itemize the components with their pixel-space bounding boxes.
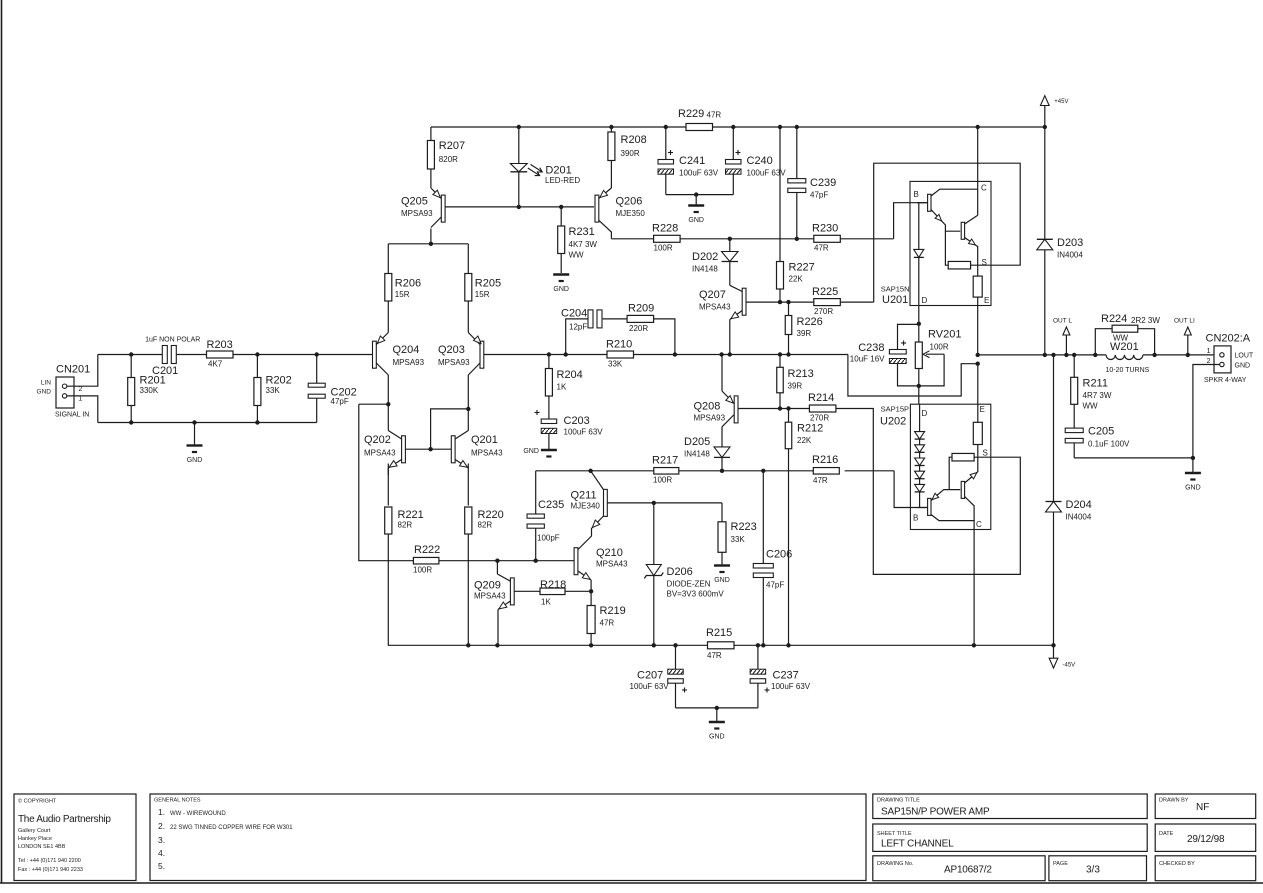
resistor R230 [812,223,840,253]
zener diode D206 [644,565,724,646]
resistor R208 [608,127,647,188]
svg-text:47R: 47R [600,619,615,628]
svg-text:3.: 3. [158,835,165,845]
wire Q205 collector node [388,229,468,274]
svg-text:GND: GND [714,577,730,584]
node OUT LI [1174,318,1195,355]
svg-text:C235: C235 [538,499,564,511]
svg-text:WW: WW [1083,402,1099,411]
capacitor C237 [750,645,811,708]
diode D202 [692,239,738,285]
svg-text:R203: R203 [207,339,233,351]
svg-text:GND: GND [37,389,52,396]
resistor R229 [678,108,721,131]
capacitor C241 [658,127,719,195]
svg-text:The Audio Partnership: The Audio Partnership [18,814,111,825]
resistor R216 [812,454,839,485]
svg-text:GND: GND [553,286,569,293]
svg-text:IN4004: IN4004 [1057,251,1083,260]
svg-text:OUT LI: OUT LI [1174,318,1195,325]
wire C207 C237 ground link [676,706,758,722]
svg-text:NF: NF [1196,802,1209,813]
svg-text:SAP15N/P POWER AMP: SAP15N/P POWER AMP [881,807,990,818]
svg-text:82R: 82R [398,520,413,529]
svg-text:10-20 TURNS: 10-20 TURNS [1106,367,1150,374]
svg-text:R228: R228 [652,223,678,235]
capacitor C235 [527,471,564,561]
svg-text:DATE: DATE [1159,831,1174,837]
svg-text:R217: R217 [652,455,678,467]
svg-text:220R: 220R [629,324,648,333]
svg-text:CHECKED BY: CHECKED BY [1159,861,1195,867]
svg-text:R227: R227 [789,262,815,274]
svg-text:R207: R207 [439,140,465,152]
diode D205 [684,436,730,471]
svg-text:12pF: 12pF [569,323,587,332]
resistor R221 [385,507,424,534]
wire U202 E to output node [977,364,979,405]
capacitor C239 [788,127,836,239]
svg-text:B: B [914,190,919,199]
svg-text:33K: 33K [608,360,623,369]
resistor R211 [1071,355,1112,428]
svg-text:C203: C203 [564,415,590,427]
svg-text:330K: 330K [140,386,159,395]
svg-text:DRAWING No.: DRAWING No. [877,861,914,867]
transistor Q211 [571,471,654,550]
svg-text:MPSA93: MPSA93 [401,209,433,218]
svg-text:100R: 100R [930,343,949,352]
svg-text:R205: R205 [475,278,501,290]
svg-text:R215: R215 [706,627,732,639]
svg-text:GND: GND [1185,485,1201,492]
svg-text:C239: C239 [810,177,836,189]
U202 internal transistor 2 [961,445,978,521]
wire R230 to U201 B [894,203,928,239]
U202 internal resistor RB [949,453,991,489]
ground C203 [523,448,557,457]
resistor R224 [1095,313,1160,355]
ground C241 C240 [688,206,704,225]
ground R223 [714,552,730,584]
svg-text:W201: W201 [1110,341,1139,353]
wire R221 column [359,402,391,645]
transistor Q209 [474,561,540,646]
title block sheet title box [873,824,1147,851]
darlington module U201 [881,181,991,306]
svg-text:LOUT: LOUT [1235,353,1254,360]
svg-text:AP10687/2: AP10687/2 [944,865,992,876]
transistor Q207 [699,285,746,354]
svg-text:R209: R209 [628,303,654,315]
svg-text:MPSA93: MPSA93 [694,414,726,423]
svg-text:33K: 33K [266,386,281,395]
wire input top rail [98,352,372,356]
svg-text:1uF NON POLAR: 1uF NON POLAR [145,337,200,344]
svg-text:LONDON SE1 4BB: LONDON SE1 4BB [18,844,66,850]
svg-text:C238: C238 [858,342,884,354]
U201 internal transistor 1 [917,189,978,231]
transistor Q201 [431,431,504,470]
svg-text:82R: 82R [478,520,493,529]
svg-text:D202: D202 [692,251,718,263]
U202 internal emitter resistor [973,404,982,444]
svg-text:U201: U201 [882,294,908,306]
ground input [187,423,203,465]
wire U201 D to RV201 [917,306,921,343]
svg-text:100R: 100R [413,566,432,575]
svg-text:0.1uF 100V: 0.1uF 100V [1088,440,1130,449]
wire CN201 pin1 to ground rail [67,396,98,423]
wire +45V rail [431,125,1045,129]
svg-text:Q201: Q201 [471,434,498,446]
svg-text:D201: D201 [545,165,571,177]
capacitor C240 [726,127,787,195]
svg-text:SIGNAL IN: SIGNAL IN [55,412,89,419]
svg-text:Fax : +44 (0)171 940 2233: Fax : +44 (0)171 940 2233 [18,867,83,873]
svg-text:GND: GND [688,217,704,224]
U201 internal transistor 2 [961,215,978,265]
U201 internal diode [914,203,924,306]
svg-text:10uF 16V: 10uF 16V [850,355,885,364]
svg-text:GND: GND [709,734,725,741]
diode D204 [1046,353,1092,646]
U201 internal resistor RB [945,231,991,269]
svg-text:R231: R231 [569,226,595,238]
svg-text:GENERAL NOTES: GENERAL NOTES [154,798,201,804]
wire C241 C240 ground link [666,192,734,205]
svg-text:3/3: 3/3 [1086,865,1100,876]
svg-text:D205: D205 [684,436,710,448]
title block drawn by box [1155,794,1256,819]
svg-text:SHEET TITLE: SHEET TITLE [877,831,912,837]
svg-text:47pF: 47pF [810,191,828,200]
svg-text:© COPYRIGHT: © COPYRIGHT [18,798,57,805]
svg-text:15R: 15R [395,290,410,299]
transistor Q202 [364,431,431,476]
wire Q205-Q206 base link [445,205,594,209]
svg-text:1: 1 [79,396,83,403]
wire bottom -45V rail [388,643,1056,647]
svg-text:47R: 47R [814,244,829,253]
svg-text:R219: R219 [600,605,626,617]
trimmer RV201 [915,329,961,405]
transistor Q210 [574,547,628,606]
svg-text:Gallery Court: Gallery Court [18,828,51,834]
capacitor C207 [630,645,688,708]
page border left [1,0,3,883]
wire Q206 collector [599,220,612,239]
svg-text:GND: GND [1235,363,1251,370]
svg-text:OUT L: OUT L [1053,318,1072,325]
svg-text:Q202: Q202 [364,434,391,446]
resistor R218 [540,579,566,607]
svg-text:39R: 39R [797,329,812,338]
wire U202 S loop [836,409,1020,575]
svg-text:R223: R223 [731,521,757,533]
svg-text:SPKR 4-WAY: SPKR 4-WAY [1204,377,1247,384]
svg-text:D206: D206 [667,566,693,578]
svg-text:Hankey Place: Hankey Place [18,836,52,842]
svg-text:Q211: Q211 [571,490,597,502]
resistor R201 [128,355,166,423]
svg-text:1K: 1K [557,383,567,392]
capacitor C201 [145,337,200,378]
title block drawing number box [873,856,1045,881]
title block checked by box [1155,856,1256,881]
svg-text:DRAWN BY: DRAWN BY [1159,798,1189,804]
svg-text:SAP15P: SAP15P [881,405,909,414]
svg-text:PAGE: PAGE [1053,861,1068,867]
svg-text:R218: R218 [540,579,566,591]
svg-text:C205: C205 [1088,426,1114,438]
connector CN201 [37,364,91,419]
svg-text:BV=3V3 600mV: BV=3V3 600mV [667,590,725,599]
resistor R223 [718,521,757,552]
svg-text:R204: R204 [557,369,583,381]
svg-text:R221: R221 [398,509,424,521]
inductor W201 [1106,341,1150,374]
svg-text:R222: R222 [414,544,440,556]
svg-text:4K7: 4K7 [208,360,223,369]
transistor Q205 [401,188,445,228]
svg-text:Tel : +44 (0)171 940 2200: Tel : +44 (0)171 940 2200 [18,858,81,864]
wire R228 row [611,237,893,241]
svg-text:100uF 63V: 100uF 63V [679,169,719,178]
svg-text:C: C [981,184,987,193]
connector CN202:A [1204,333,1254,385]
svg-text:15R: 15R [475,290,490,299]
svg-text:LEFT CHANNEL: LEFT CHANNEL [881,839,954,850]
resistor R231 [558,207,598,273]
wire C205 to ground node [1074,456,1195,460]
svg-text:LIN: LIN [41,380,51,387]
svg-text:39R: 39R [788,382,803,391]
power -45V [1049,645,1075,668]
svg-text:390R: 390R [621,149,640,158]
svg-text:Q206: Q206 [616,196,643,208]
capacitor C206 [753,471,792,646]
svg-text:MPSA93: MPSA93 [438,358,470,367]
svg-text:C241: C241 [679,155,705,167]
resistor R214 [808,392,836,423]
wire U202 C to bottom rail [973,530,975,646]
wire R209 to mid rail [654,319,675,355]
svg-text:C201: C201 [152,365,178,377]
svg-text:S: S [983,449,988,458]
svg-text:100uF 63V: 100uF 63V [771,682,811,691]
svg-text:DRAWING TITLE: DRAWING TITLE [877,798,920,804]
svg-text:R216: R216 [812,454,838,466]
resistor R204 [545,355,582,420]
svg-text:C237: C237 [773,670,799,682]
svg-text:IN4004: IN4004 [1066,513,1092,522]
capacitor C202 [308,355,357,423]
svg-text:C207: C207 [637,670,663,682]
svg-text:IN4148: IN4148 [692,265,718,274]
svg-text:IN4148: IN4148 [684,450,710,459]
svg-text:Q203: Q203 [438,344,465,356]
svg-text:1: 1 [1207,348,1211,355]
wire Q203 emitter to R205 [467,301,469,333]
svg-text:R206: R206 [395,278,421,290]
svg-text:GND: GND [523,448,539,455]
svg-text:270R: 270R [810,414,829,423]
svg-text:R224: R224 [1101,313,1127,325]
resistor R228 [652,223,680,253]
capacitor C238 [850,324,919,386]
svg-text:R212: R212 [797,423,823,435]
wire Q211 base node [652,501,722,565]
svg-text:100pF: 100pF [537,534,560,543]
svg-text:MPSA43: MPSA43 [364,449,396,458]
svg-text:D203: D203 [1057,237,1083,249]
svg-text:Q204: Q204 [393,344,420,356]
U201 internal emitter resistor [973,265,982,297]
wire U201 C to +45V rail [977,127,979,215]
svg-text:D204: D204 [1066,499,1092,511]
resistor R203 [207,339,234,369]
LED D201 [510,127,580,207]
svg-text:4.: 4. [158,848,165,858]
wire Q208 base row [738,406,809,410]
svg-text:WW - WIREWOUND: WW - WIREWOUND [170,811,226,817]
svg-text:47R: 47R [707,651,722,660]
resistor R226 [785,302,823,354]
resistor R202 [254,355,292,423]
svg-text:SAP15N: SAP15N [881,285,910,294]
svg-text:MPSA43: MPSA43 [699,303,731,312]
title block page box [1049,856,1147,881]
wire R222 row [359,404,574,563]
svg-text:WW: WW [569,251,585,260]
U202 internal transistor 1 [917,490,974,530]
svg-text:D: D [922,409,928,418]
svg-text:C206: C206 [766,549,792,561]
title block copyright box [14,794,136,881]
svg-text:47R: 47R [707,111,722,120]
ground CN202 [1185,473,1201,492]
resistor R219 [587,605,626,645]
svg-text:R208: R208 [621,134,647,146]
svg-text:DIODE-ZEN: DIODE-ZEN [667,580,711,589]
resistor R217 [652,455,679,485]
title block general notes box [150,794,866,881]
svg-text:Q210: Q210 [596,547,623,559]
svg-text:R210: R210 [606,339,632,351]
svg-text:100R: 100R [653,476,672,485]
svg-text:33K: 33K [731,535,746,544]
resistor R210 [606,339,634,369]
svg-text:C: C [976,520,982,529]
wire R217 row [536,469,927,508]
svg-text:100uF 63V: 100uF 63V [564,428,604,437]
svg-text:R211: R211 [1083,378,1108,390]
title block drawing title box [873,794,1147,819]
svg-text:100uF 63V: 100uF 63V [630,682,670,691]
svg-text:RV201: RV201 [928,329,961,341]
svg-text:MPSA43: MPSA43 [471,449,503,458]
capacitor C203 [535,410,604,450]
svg-text:+45V: +45V [1054,99,1068,105]
svg-text:47pF: 47pF [331,397,349,406]
svg-text:LED-RED: LED-RED [545,176,580,185]
svg-text:1.: 1. [158,807,165,817]
svg-text:2: 2 [79,386,83,393]
svg-text:2.: 2. [158,821,165,831]
svg-text:GND: GND [187,457,203,464]
resistor R207 [427,127,465,188]
svg-text:Q209: Q209 [474,580,501,592]
svg-text:2R2 3W: 2R2 3W [1131,316,1160,325]
resistor R222 [413,544,440,575]
svg-text:47R: 47R [813,476,828,485]
transistor Q206 [595,188,645,222]
svg-text:MJE340: MJE340 [571,502,601,511]
svg-text:820R: 820R [439,155,458,164]
resistor R212 [785,409,823,646]
capacitor C205 [1065,426,1130,458]
svg-text:MJE350: MJE350 [616,209,646,218]
svg-text:22K: 22K [797,436,812,445]
wire U201 E to output node [976,297,1045,357]
resistor R206 [385,274,421,302]
resistor R227 [777,127,815,302]
diode D203 [1037,127,1084,357]
ground C207 C237 [709,722,725,741]
svg-text:C204: C204 [561,308,587,320]
svg-text:4R7 3W: 4R7 3W [1083,391,1112,400]
svg-text:R229: R229 [678,108,704,120]
svg-text:5.: 5. [158,861,165,871]
resistor R213 [777,355,814,409]
wire input ground rail [98,420,317,424]
wire CN201 pin2 to input node [67,355,98,387]
page border bottom [0,882,1263,884]
wire U201 S loop [874,163,1021,302]
wire Q207 base row [746,300,874,304]
power +45V [1040,96,1068,130]
svg-text:1K: 1K [541,598,551,607]
svg-text:22 SWG TINNED COPPER WIRE FOR: 22 SWG TINNED COPPER WIRE FOR W301 [170,825,293,831]
wire mid rail feedback [484,352,980,396]
title block date box [1155,824,1256,851]
svg-text:B: B [913,514,918,523]
svg-text:C240: C240 [747,155,773,167]
svg-text:R202: R202 [266,375,292,387]
svg-text:E: E [980,405,985,414]
svg-text:29/12/98: 29/12/98 [1187,834,1225,845]
svg-text:R213: R213 [788,368,814,380]
transistor Q203 [438,333,484,376]
svg-text:47pF: 47pF [766,581,784,590]
svg-text:D: D [922,296,928,305]
wire output line [1045,353,1214,357]
svg-text:CN202:A: CN202:A [1206,333,1251,345]
svg-text:4K7 3W: 4K7 3W [569,240,598,249]
svg-text:Q205: Q205 [401,196,428,208]
svg-text:CN201: CN201 [56,364,90,376]
wire Q201 cross-couple [388,375,470,645]
svg-text:MPSA43: MPSA43 [596,560,628,569]
svg-text:R214: R214 [808,392,834,404]
svg-text:100R: 100R [654,244,673,253]
resistor R225 [812,286,840,316]
svg-text:E: E [984,296,989,305]
svg-text:R220: R220 [478,509,504,521]
svg-text:Q207: Q207 [699,289,726,301]
capacitor C204 [561,308,627,355]
